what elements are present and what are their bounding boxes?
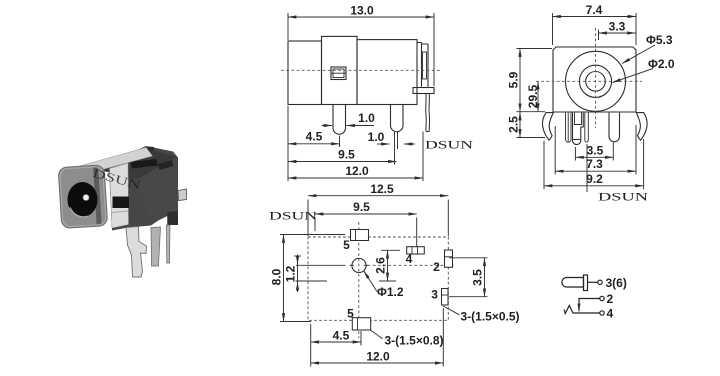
dim 7.4 extensions: [553, 13, 637, 45]
dim 1.0b arrow lines: [377, 143, 390, 145]
pad 3: [442, 289, 449, 306]
dim 1.2 vertical line: [297, 256, 299, 292]
svg-text:5.9: 5.9: [507, 71, 521, 88]
side view drawing: [281, 36, 440, 134]
middle pin: [585, 113, 589, 142]
left leg outer: [573, 113, 584, 145]
svg-text:DSUN: DSUN: [425, 138, 473, 152]
dim 3.3 line: [599, 32, 636, 34]
inner circle 2.0: [586, 72, 606, 92]
right leg: [609, 113, 620, 142]
leader 1.5x0.8: [371, 330, 383, 339]
photo of DC power jack component: [58, 146, 186, 277]
detail square on body: [331, 67, 346, 80]
right side tab: [178, 189, 187, 201]
raised middle section outline: [322, 36, 358, 104]
right hook flange: [636, 113, 647, 141]
dim 2.6 extensions: [379, 250, 400, 281]
left leg inner detail: [573, 113, 582, 140]
dim 13.0 line: [288, 16, 434, 18]
schematic legend: [562, 275, 604, 315]
dim 4.5 extensions pcb: [311, 324, 361, 367]
svg-text:3.5: 3.5: [471, 269, 485, 286]
leader phi1.2: [364, 271, 377, 292]
svg-text:Φ1.2: Φ1.2: [377, 285, 404, 299]
leg1 center extension: [339, 136, 341, 148]
hole cross ticks: [350, 264, 369, 266]
dim 12.5 extensions: [308, 200, 448, 237]
centerline dashed: [281, 69, 440, 71]
jack body dark silhouette: [96, 146, 178, 231]
rear thin pin: [167, 225, 171, 263]
svg-text:2.5: 2.5: [507, 116, 521, 133]
dim 4.5 line pcb: [311, 341, 361, 343]
right body section outline: [357, 40, 417, 105]
dim 5.9 extensions: [517, 49, 553, 112]
dim 3.5 line: [575, 156, 613, 158]
svg-text:9.5: 9.5: [353, 200, 370, 214]
dim 9.5 extensions pcb: [315, 218, 417, 247]
svg-text:3(6): 3(6): [606, 276, 627, 290]
svg-text:29.5: 29.5: [526, 84, 540, 108]
svg-text:7.4: 7.4: [586, 3, 603, 17]
leg 1: [333, 105, 346, 135]
dim 7.4 line: [553, 16, 637, 18]
jack body top face: [99, 148, 176, 179]
right foot: [167, 211, 178, 225]
svg-text:13.0: 13.0: [350, 4, 374, 18]
dim 9.5 line: [288, 161, 397, 163]
svg-text:4: 4: [406, 252, 413, 266]
front view drawing: [536, 28, 647, 145]
horizontal centerline pcb right: [368, 264, 457, 266]
dim 7.3 line: [555, 170, 636, 172]
dim 9.5 line pcb: [315, 213, 417, 215]
svg-text:12.0: 12.0: [345, 164, 369, 178]
left thin contact bar: [566, 113, 572, 143]
row line 1.2 bottom: [296, 280, 328, 282]
middle circle: [579, 65, 611, 97]
leg 2: [391, 105, 404, 132]
switch arrow: [578, 304, 580, 312]
metal shield light band: [78, 148, 153, 172]
bent pin below tab: [425, 94, 428, 132]
leader phi2.0: [613, 69, 654, 83]
svg-text:3.5: 3.5: [587, 143, 604, 157]
jack body right face: [138, 157, 178, 224]
svg-text:1.0: 1.0: [368, 130, 385, 144]
svg-text:1.0: 1.0: [358, 111, 375, 125]
pad 5 top: [351, 230, 369, 241]
leg2 extension pair: [395, 132, 398, 165]
line terminal 4 with spring: [564, 306, 600, 314]
front plate inner detail: [423, 52, 427, 79]
center hole phi1.2: [352, 258, 366, 272]
svg-text:5: 5: [347, 307, 354, 321]
dim 1.2 top tick: [294, 255, 301, 257]
pad 4: [407, 247, 425, 254]
front bent leg: [126, 227, 147, 278]
svg-text:5: 5: [343, 238, 350, 252]
svg-text:DSUN: DSUN: [598, 190, 649, 204]
extension below middle pin: [586, 144, 588, 192]
dim 12.5 line: [308, 195, 448, 197]
metal shield light strip: [110, 163, 129, 228]
barrel symbol crossbar: [584, 275, 588, 291]
svg-text:Φ2.0: Φ2.0: [648, 57, 675, 71]
barrel hole: [68, 182, 98, 217]
left hook flange: [543, 113, 554, 141]
dim 12.0 line pcb: [311, 362, 444, 364]
svg-text:3-(1.5×0.8): 3-(1.5×0.8): [385, 334, 444, 348]
right extension line: [422, 132, 424, 182]
svg-text:2: 2: [607, 292, 614, 306]
terminal 2 circle: [600, 296, 604, 300]
svg-text:9.5: 9.5: [338, 148, 355, 162]
dim 7.3 extensions: [555, 125, 636, 175]
svg-text:Φ5.3: Φ5.3: [646, 33, 673, 47]
terminal 3 circle: [598, 280, 602, 284]
svg-text:9.2: 9.2: [586, 172, 603, 186]
svg-text:3.3: 3.3: [609, 20, 626, 34]
barrel symbol bullet: [562, 278, 584, 288]
outer circle 5.3: [566, 51, 626, 111]
dim 13.0 extension lines: [288, 13, 434, 86]
detail square mid line: [331, 72, 346, 74]
detail square inner: [333, 69, 344, 78]
svg-text:12.5: 12.5: [370, 182, 394, 196]
pad 2: [445, 250, 453, 267]
barrel section outline: [288, 41, 322, 105]
terminal 4 circle: [600, 311, 604, 315]
dim 29.5 line: [537, 81, 539, 111]
dim 1.2 arrows: [297, 255, 299, 265]
top face vent slot 2: [158, 160, 174, 170]
svg-text:3: 3: [431, 288, 438, 302]
dim 1.0a arrow lines: [322, 125, 333, 127]
line to terminal 3: [588, 281, 598, 283]
svg-text:4: 4: [607, 307, 614, 321]
component outline dashed rect: [308, 237, 448, 320]
dim 4.5 line: [288, 143, 340, 145]
top face boss bump: [148, 147, 154, 151]
front body square: [553, 47, 636, 112]
pad 5 bottom: [352, 318, 370, 330]
vertical centerline: [595, 28, 597, 128]
line terminal 2: [579, 299, 600, 311]
dim 3.5 pcb extensions: [449, 258, 488, 297]
center pin: [83, 195, 89, 201]
svg-text:2: 2: [433, 260, 440, 274]
svg-text:4.5: 4.5: [333, 329, 350, 343]
PCB layout view: [308, 222, 456, 338]
dim 9.2 line: [544, 185, 644, 187]
row line left of hole: [296, 264, 346, 266]
switch window on strip: [113, 197, 130, 209]
svg-text:DSUN: DSUN: [269, 209, 317, 223]
front plate right: [417, 43, 428, 87]
svg-text:12.0: 12.0: [366, 350, 390, 364]
svg-text:8.0: 8.0: [270, 268, 284, 285]
vertical centerline pcb: [358, 222, 360, 338]
dim 2.6 line: [387, 250, 389, 281]
leader 1.5x0.5: [443, 306, 460, 315]
svg-text:4.5: 4.5: [306, 130, 323, 144]
mounting tab: [413, 88, 434, 94]
dim 2.5 line: [519, 112, 521, 138]
svg-text:1.2: 1.2: [284, 265, 298, 282]
leader phi5.3: [622, 45, 655, 64]
svg-text:2.6: 2.6: [374, 257, 388, 274]
top face vent small: [135, 153, 144, 159]
dim 5.9 line: [519, 49, 521, 112]
middle leg: [151, 227, 161, 266]
dim 8.0 line: [283, 235, 285, 322]
dim 3.5 pcb line: [484, 258, 486, 297]
barrel hole rim highlight: [70, 208, 88, 217]
horizontal centerline: [536, 80, 642, 82]
dim 3.5 extensions: [575, 143, 613, 161]
dim 12.0 line: [288, 177, 423, 179]
top face vent slot: [131, 159, 158, 169]
dim 9.2 extensions: [544, 139, 644, 189]
strip seam line: [112, 211, 129, 213]
dim 12.0 extension right pcb: [442, 308, 444, 367]
left extension line: [287, 106, 289, 181]
dim 8.0 extensions: [280, 235, 345, 322]
front face plate: [58, 165, 108, 229]
dim 2.5 extension: [517, 137, 546, 139]
svg-text:3-(1.5×0.5): 3-(1.5×0.5): [461, 310, 520, 324]
svg-text:7.3: 7.3: [586, 157, 603, 171]
dim 3.3 extension: [598, 30, 600, 41]
